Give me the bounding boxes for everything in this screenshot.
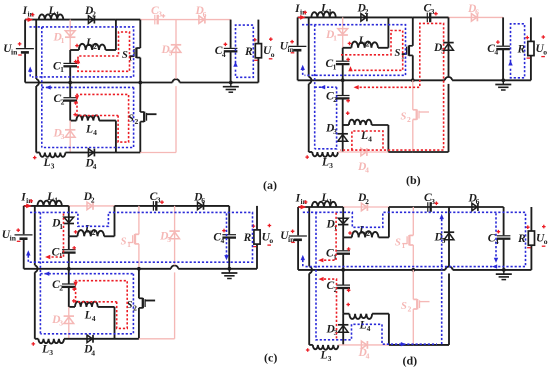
svg-text:5: 5: [169, 49, 173, 58]
svg-text:3: 3: [158, 9, 162, 18]
svg-text:2: 2: [366, 229, 370, 238]
svg-text:L: L: [85, 37, 93, 49]
svg-text:2: 2: [366, 40, 370, 49]
svg-text:2: 2: [365, 197, 369, 206]
svg-text:4: 4: [368, 134, 372, 143]
svg-text:1: 1: [54, 196, 58, 205]
svg-text:3: 3: [329, 161, 333, 170]
svg-text:3: 3: [61, 132, 65, 141]
svg-text:2: 2: [92, 228, 96, 237]
svg-text:o: o: [271, 50, 275, 59]
svg-text:L: L: [320, 3, 328, 15]
svg-text:4: 4: [221, 236, 225, 245]
svg-text:L: L: [358, 225, 366, 237]
svg-text:2: 2: [365, 7, 369, 16]
svg-text:L: L: [359, 319, 367, 331]
svg-text:2: 2: [407, 115, 411, 124]
svg-text:2: 2: [91, 196, 95, 205]
svg-text:1: 1: [61, 36, 65, 45]
svg-text:1: 1: [59, 251, 63, 260]
svg-text:L: L: [46, 191, 54, 203]
svg-text:L: L: [48, 5, 56, 17]
svg-text:4: 4: [494, 48, 498, 57]
svg-text:2: 2: [93, 42, 97, 51]
svg-text:L: L: [85, 123, 93, 135]
svg-text:2: 2: [135, 117, 139, 126]
svg-text:4: 4: [93, 128, 97, 137]
svg-text:3: 3: [431, 7, 435, 16]
svg-text:o: o: [544, 237, 548, 246]
svg-text:L: L: [84, 224, 92, 236]
svg-text:3: 3: [157, 196, 161, 205]
svg-text:L: L: [41, 343, 49, 355]
svg-text:(a): (a): [263, 178, 277, 192]
svg-text:S: S: [122, 50, 128, 61]
svg-text:1: 1: [329, 197, 333, 206]
svg-text:1: 1: [127, 240, 131, 249]
svg-text:R: R: [243, 232, 252, 244]
svg-text:2: 2: [61, 97, 65, 106]
svg-text:4: 4: [365, 165, 369, 174]
svg-text:R: R: [517, 233, 526, 245]
svg-text:L: L: [84, 310, 92, 322]
svg-text:6: 6: [475, 8, 479, 17]
svg-text:o: o: [543, 48, 547, 57]
svg-text:6: 6: [203, 10, 207, 19]
svg-text:4: 4: [93, 162, 97, 171]
svg-text:6: 6: [476, 197, 480, 206]
svg-text:S: S: [128, 114, 134, 125]
svg-text:5: 5: [167, 235, 171, 244]
svg-text:1: 1: [333, 34, 337, 43]
svg-text:o: o: [269, 236, 273, 245]
svg-text:3: 3: [51, 162, 55, 171]
svg-text:1: 1: [328, 7, 332, 16]
svg-text:L: L: [358, 35, 366, 47]
svg-text:4: 4: [92, 314, 96, 323]
svg-text:(b): (b): [406, 173, 421, 187]
svg-text:L: L: [321, 192, 329, 204]
svg-text:S: S: [395, 48, 401, 59]
svg-text:3: 3: [431, 197, 435, 206]
svg-text:in: in: [11, 47, 18, 56]
svg-text:S: S: [401, 301, 407, 312]
svg-text:L: L: [321, 157, 329, 169]
svg-text:3: 3: [49, 348, 53, 357]
svg-text:4: 4: [91, 348, 95, 357]
svg-text:R: R: [244, 46, 253, 58]
svg-text:1: 1: [56, 9, 60, 18]
svg-text:3: 3: [59, 319, 63, 328]
svg-text:4: 4: [366, 352, 370, 361]
svg-text:2: 2: [59, 284, 63, 293]
svg-text:6: 6: [201, 196, 205, 205]
svg-text:in: in: [10, 234, 17, 243]
svg-text:1: 1: [402, 241, 406, 250]
svg-text:4: 4: [222, 50, 226, 59]
svg-text:S: S: [121, 236, 127, 247]
svg-text:3: 3: [328, 354, 332, 363]
svg-text:S: S: [401, 111, 407, 122]
svg-text:4: 4: [367, 324, 371, 333]
svg-text:S: S: [127, 300, 133, 311]
svg-text:(d): (d): [403, 354, 418, 368]
svg-text:1: 1: [333, 63, 337, 72]
svg-text:1: 1: [59, 222, 63, 231]
svg-text:2: 2: [92, 9, 96, 18]
svg-text:1: 1: [60, 65, 64, 74]
svg-text:L: L: [320, 349, 328, 361]
svg-text:L: L: [43, 157, 51, 169]
svg-text:(c): (c): [264, 351, 277, 365]
svg-text:2: 2: [408, 305, 412, 314]
svg-text:S: S: [395, 237, 401, 248]
